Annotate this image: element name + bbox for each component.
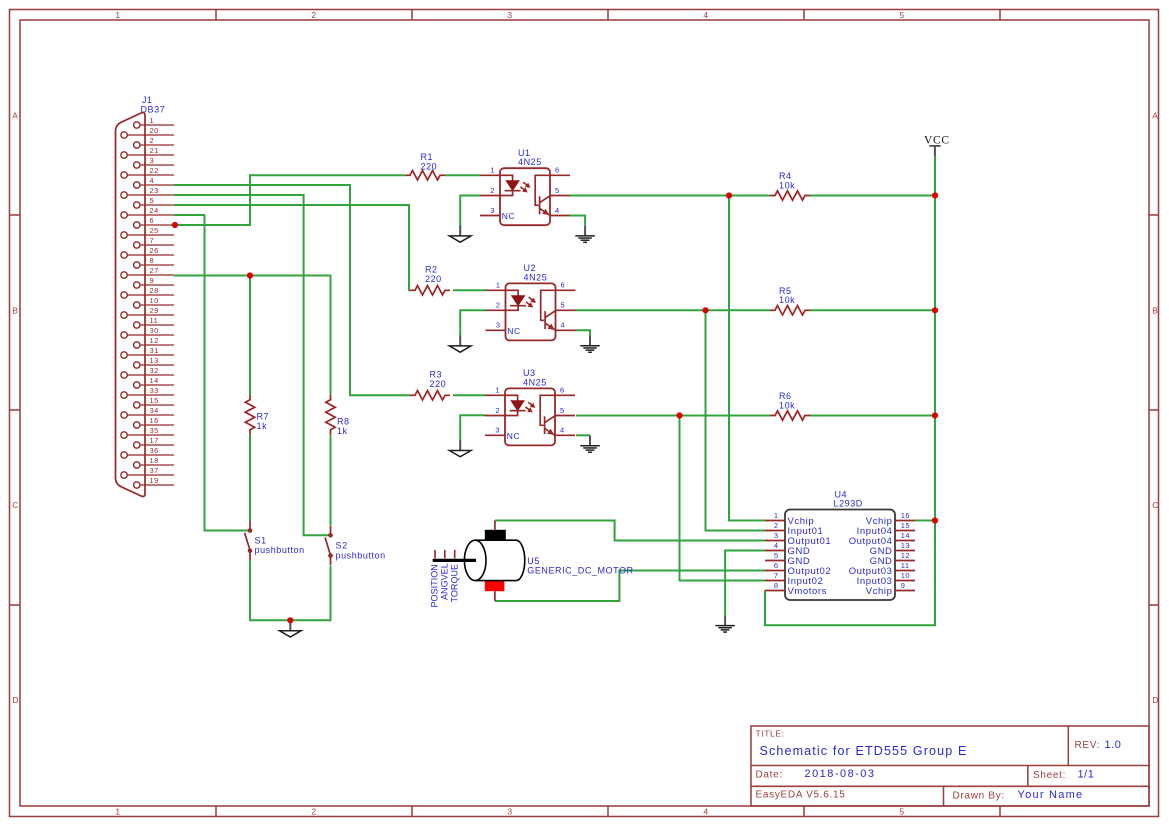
svg-text:16: 16 (901, 511, 910, 520)
svg-text:pushbutton: pushbutton (336, 550, 386, 560)
svg-text:L293D: L293D (834, 499, 863, 509)
pin 12 of U4 (870, 551, 915, 567)
wire R5 node to U4 pin2 (706, 310, 766, 530)
pin 33 of J1 (121, 386, 174, 398)
svg-text:1: 1 (115, 10, 120, 20)
svg-text:2: 2 (495, 406, 500, 415)
svg-text:S1: S1 (255, 535, 267, 545)
switch S1 (pushbutton) (245, 521, 305, 560)
pin 13 of J1 (134, 356, 174, 368)
svg-text:10k: 10k (779, 180, 795, 190)
svg-text:ANGVEL: ANGVEL (439, 563, 449, 600)
pin 35 of J1 (121, 426, 174, 438)
svg-text:8: 8 (150, 256, 155, 265)
wire DB37 pin23 to S2 (174, 195, 331, 535)
svg-text:2: 2 (496, 301, 501, 310)
svg-text:1: 1 (150, 116, 155, 125)
svg-text:21: 21 (150, 146, 159, 155)
svg-text:A: A (1152, 111, 1158, 121)
resistor R8 (1k) (326, 395, 350, 436)
pin 21 of J1 (121, 146, 174, 158)
pin 15 of J1 (134, 396, 174, 408)
optocoupler U1 (4N25) (480, 148, 570, 225)
svg-text:14: 14 (901, 531, 910, 540)
svg-text:24: 24 (150, 206, 159, 215)
pin 30 of J1 (121, 326, 174, 338)
svg-text:GENERIC_DC_MOTOR: GENERIC_DC_MOTOR (527, 565, 633, 575)
svg-text:1/1: 1/1 (1078, 769, 1095, 781)
wire R7 to S1 (249, 435, 251, 521)
pin 11 of J1 (134, 316, 174, 328)
wire U2 pin4 to ground (576, 330, 591, 335)
pin 34 of J1 (121, 406, 174, 418)
svg-text:D: D (1152, 695, 1159, 705)
pin 1 of U4 (765, 511, 814, 527)
wire U3 pin2 to ground (460, 415, 485, 440)
svg-text:31: 31 (150, 346, 159, 355)
pin 4 of U4 (765, 541, 810, 557)
pin 18 of J1 (134, 456, 174, 468)
svg-text:B: B (12, 306, 18, 316)
wire R4 node to U4 pin1 (729, 196, 765, 521)
ground GND U2 emitter (signal ground) (580, 336, 600, 353)
svg-text:36: 36 (150, 446, 159, 455)
svg-text:1: 1 (496, 281, 501, 290)
wire DB37 pin24 to S1 (174, 215, 250, 531)
pin 20 of J1 (121, 126, 174, 138)
svg-text:Schematic for ETD555 Group E: Schematic for ETD555 Group E (760, 744, 968, 758)
svg-text:1: 1 (490, 166, 495, 175)
svg-text:6: 6 (560, 386, 565, 395)
svg-text:33: 33 (150, 386, 159, 395)
pin 16 of U4 (866, 511, 915, 527)
pin 5 of J1 (134, 196, 174, 208)
pin 2 of U4 (765, 521, 823, 537)
svg-text:11: 11 (150, 316, 159, 325)
wire DB37 pin4 to R3 (174, 185, 410, 395)
wire U4 pin6 to motor - (495, 571, 765, 602)
pin 7 of U4 (765, 571, 823, 587)
svg-text:5: 5 (774, 551, 779, 560)
svg-text:3: 3 (490, 206, 495, 215)
svg-text:2: 2 (774, 521, 779, 530)
svg-text:5: 5 (560, 406, 565, 415)
svg-text:1.0: 1.0 (1105, 739, 1122, 751)
wire U1 pin4 to ground (570, 216, 585, 226)
wire DB37 pin5 to R2 (174, 205, 411, 290)
switch S2 (pushbutton) (325, 526, 386, 565)
wire U2 pin5 to R5 (576, 309, 771, 311)
pin 27 of J1 (121, 266, 174, 278)
svg-text:2018-08-03: 2018-08-03 (805, 768, 876, 780)
title block (751, 726, 1149, 806)
svg-text:TORQUE: TORQUE (449, 564, 459, 603)
svg-text:10k: 10k (779, 400, 795, 410)
resistor R3 (220) (410, 370, 450, 401)
svg-text:10: 10 (901, 571, 910, 580)
wire U1 pin5 to R4 (570, 195, 770, 197)
svg-text:16: 16 (150, 416, 159, 425)
svg-text:1k: 1k (337, 426, 348, 436)
resistor R4 (10k) (770, 171, 810, 200)
ground GND U1 emitter (signal ground) (575, 226, 595, 243)
svg-text:15: 15 (150, 396, 159, 405)
resistor R5 (10k) (770, 286, 810, 315)
wire DB37 pin27 to R8 (174, 276, 331, 395)
pin 6 of J1 (134, 216, 174, 228)
pin 17 of J1 (134, 436, 174, 448)
pin 25 of J1 (121, 226, 174, 238)
junction switch ground node (287, 617, 293, 623)
pin 10 of U4 (857, 571, 915, 587)
svg-text:NC: NC (507, 431, 520, 441)
pin 19 of J1 (134, 476, 174, 488)
svg-text:Date:: Date: (756, 770, 783, 781)
svg-text:29: 29 (150, 306, 159, 315)
wire U3 pin4 to ground (576, 434, 590, 436)
svg-text:Your Name: Your Name (1018, 789, 1084, 801)
svg-text:3: 3 (496, 321, 501, 330)
svg-text:3: 3 (507, 807, 512, 817)
svg-text:5: 5 (150, 196, 155, 205)
svg-text:1: 1 (774, 511, 779, 520)
svg-text:12: 12 (901, 551, 910, 560)
junction pin27 / R7 node (247, 272, 253, 278)
pin 3 of U4 (765, 531, 831, 547)
pin 22 of J1 (121, 166, 174, 178)
wire R8 to S2 (330, 435, 332, 526)
svg-text:TITLE:: TITLE: (756, 729, 785, 739)
pin 9 of J1 (134, 276, 174, 288)
power VCC (924, 135, 950, 156)
svg-text:13: 13 (150, 356, 159, 365)
svg-text:12: 12 (150, 336, 159, 345)
wire U1 pin2 to ground (460, 196, 480, 226)
svg-text:18: 18 (150, 456, 159, 465)
wire R5 to VCC rail (810, 309, 935, 311)
pin 12 of J1 (134, 336, 174, 348)
pin 31 of J1 (121, 346, 174, 358)
svg-text:A: A (12, 111, 18, 121)
pin 11 of U4 (849, 561, 915, 577)
wire VCC rail down to U4 pin8 (765, 155, 935, 625)
svg-text:23: 23 (150, 186, 159, 195)
svg-text:14: 14 (150, 376, 159, 385)
ground GND U2 LED side (earth triangle) (449, 336, 471, 353)
pin 37 of J1 (121, 466, 174, 478)
svg-text:6: 6 (561, 281, 566, 290)
svg-text:7: 7 (150, 236, 155, 245)
wire U3 pin5 to R6 (576, 415, 770, 417)
pin 2 of J1 (134, 136, 174, 148)
svg-text:4: 4 (561, 321, 566, 330)
pin 24 of J1 (121, 206, 174, 218)
motor U5 (GENERIC_DC_MOTOR) (429, 521, 633, 608)
wire R1 to U1 pin1 (445, 174, 480, 176)
junction DB37 pin6 node (172, 222, 178, 228)
svg-text:U5: U5 (527, 556, 540, 566)
pin 10 of J1 (134, 296, 174, 308)
resistor R7 (1k) (245, 395, 269, 435)
junction R5 left node (702, 307, 708, 313)
junction R6 left node (676, 412, 682, 418)
connector J1 (DB37) (116, 95, 175, 496)
wire R6 node to U4 pin7 (680, 416, 766, 581)
pin 6 of U4 (765, 561, 831, 577)
junction R4 left node (726, 192, 732, 198)
svg-text:5: 5 (561, 301, 566, 310)
ground GND U4 (signal ground) (715, 615, 735, 632)
svg-text:NC: NC (502, 211, 515, 221)
svg-text:11: 11 (901, 561, 910, 570)
svg-text:220: 220 (430, 379, 447, 389)
resistor R1 (220) (405, 152, 445, 180)
svg-text:4: 4 (555, 206, 560, 215)
ground GND U3 emitter (signal ground) (580, 436, 600, 453)
junction VCC rail R6 node (932, 412, 938, 418)
pin 14 of U4 (849, 531, 915, 547)
IC U4 (L293D) (765, 490, 915, 601)
pin 14 of J1 (134, 376, 174, 388)
svg-text:6: 6 (774, 561, 779, 570)
svg-text:35: 35 (150, 426, 159, 435)
junction VCC rail R4 node (932, 192, 938, 198)
svg-text:13: 13 (901, 541, 910, 550)
wire R4 to VCC rail (810, 195, 935, 197)
svg-text:S2: S2 (336, 541, 348, 551)
pin 3 of J1 (134, 156, 174, 168)
pin 36 of J1 (121, 446, 174, 458)
svg-text:4N25: 4N25 (518, 157, 542, 167)
ground GND switches (earth triangle) (280, 620, 302, 637)
pin 28 of J1 (121, 286, 174, 298)
resistor R2 (220) (410, 265, 450, 296)
pin 13 of U4 (870, 541, 915, 557)
svg-text:37: 37 (150, 466, 159, 475)
svg-text:REV:: REV: (1075, 740, 1101, 751)
pin 1 of J1 (134, 116, 174, 128)
pin 23 of J1 (121, 186, 174, 198)
pin 7 of J1 (134, 236, 174, 248)
svg-text:2: 2 (490, 186, 495, 195)
svg-text:28: 28 (150, 286, 159, 295)
wire U4 pin4 to ground (725, 551, 765, 616)
svg-text:22: 22 (150, 166, 159, 175)
svg-text:27: 27 (150, 266, 159, 275)
pin 15 of U4 (857, 521, 915, 537)
svg-text:26: 26 (150, 246, 159, 255)
svg-text:17: 17 (150, 436, 159, 445)
svg-text:5: 5 (555, 186, 560, 195)
pin 5 of U4 (765, 551, 810, 567)
wire U4 pin3 to motor + (495, 521, 765, 541)
svg-text:D: D (12, 695, 19, 705)
svg-text:B: B (1152, 306, 1158, 316)
junction VCC rail R5 node (932, 307, 938, 313)
wire R2 to U2 pin1 (453, 289, 486, 291)
svg-text:4N25: 4N25 (523, 377, 547, 387)
svg-text:7: 7 (774, 571, 779, 580)
svg-text:POSITION: POSITION (429, 564, 439, 607)
svg-text:4: 4 (150, 176, 155, 185)
svg-text:4: 4 (560, 426, 565, 435)
svg-text:2: 2 (311, 10, 316, 20)
svg-text:2: 2 (150, 136, 155, 145)
svg-text:Sheet:: Sheet: (1033, 770, 1066, 781)
wire S1/S2 to common ground (250, 560, 331, 620)
svg-text:3: 3 (150, 156, 155, 165)
pin 9 of U4 (866, 581, 915, 597)
ground GND U1 LED side (earth triangle) (449, 226, 471, 243)
svg-text:32: 32 (150, 366, 159, 375)
pin 8 of U4 (765, 581, 827, 597)
svg-text:2: 2 (311, 807, 316, 817)
svg-text:8: 8 (774, 581, 779, 590)
svg-text:Drawn By:: Drawn By: (953, 790, 1005, 801)
svg-text:10k: 10k (779, 295, 795, 305)
svg-text:30: 30 (150, 326, 159, 335)
svg-text:34: 34 (150, 406, 159, 415)
svg-text:15: 15 (901, 521, 910, 530)
svg-text:1k: 1k (257, 421, 268, 431)
svg-text:6: 6 (150, 216, 155, 225)
svg-text:EasyEDA V5.6.15: EasyEDA V5.6.15 (756, 790, 846, 801)
svg-text:220: 220 (421, 162, 438, 172)
svg-text:3: 3 (507, 10, 512, 20)
wire DB37 pin6 to R1 (174, 175, 405, 225)
pin 32 of J1 (121, 366, 174, 378)
pin 4 of J1 (134, 176, 174, 188)
pin 29 of J1 (121, 306, 174, 318)
svg-text:4: 4 (703, 807, 708, 817)
wire VCC rail to U4 pin16 (915, 520, 935, 522)
svg-text:4: 4 (703, 10, 708, 20)
svg-text:25: 25 (150, 226, 159, 235)
wire U2 pin2 to ground (460, 310, 485, 335)
pin 26 of J1 (121, 246, 174, 258)
svg-text:4N25: 4N25 (524, 272, 548, 282)
wire R6 to VCC rail (810, 415, 935, 417)
svg-text:9: 9 (901, 581, 906, 590)
svg-text:3: 3 (774, 531, 779, 540)
svg-text:4: 4 (774, 541, 779, 550)
pin 16 of J1 (134, 416, 174, 428)
svg-text:pushbutton: pushbutton (255, 545, 305, 555)
svg-text:5: 5 (899, 10, 904, 20)
svg-text:19: 19 (150, 476, 159, 485)
ground GND U3 LED side (earth triangle) (449, 440, 471, 457)
svg-text:10: 10 (150, 296, 159, 305)
optocoupler U2 (4N25) (486, 263, 576, 340)
svg-text:Vchip: Vchip (866, 586, 893, 597)
svg-text:5: 5 (899, 807, 904, 817)
svg-text:1: 1 (495, 386, 500, 395)
svg-text:3: 3 (495, 426, 500, 435)
svg-text:20: 20 (150, 126, 159, 135)
resistor R6 (10k) (770, 391, 810, 420)
optocoupler U3 (4N25) (485, 368, 575, 445)
junction VCC rail U4 pin16 node (932, 517, 938, 523)
svg-text:220: 220 (425, 274, 442, 284)
wire R3 to U3 pin1 (453, 394, 485, 396)
wire pin27 node down to R7 (249, 276, 251, 395)
svg-text:C: C (1152, 500, 1159, 510)
svg-text:9: 9 (150, 276, 155, 285)
pin 8 of J1 (134, 256, 174, 268)
svg-text:C: C (12, 500, 19, 510)
svg-text:6: 6 (555, 166, 560, 175)
svg-text:1: 1 (115, 807, 120, 817)
svg-text:VCC: VCC (924, 135, 950, 147)
svg-text:NC: NC (507, 326, 520, 336)
svg-text:Vmotors: Vmotors (788, 586, 828, 597)
